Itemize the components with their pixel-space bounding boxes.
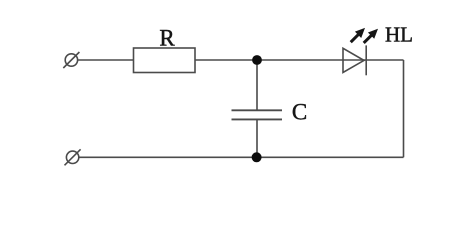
svg-text:HL: HL — [385, 23, 413, 47]
svg-text:R: R — [159, 26, 175, 51]
svg-text:C: C — [292, 100, 307, 125]
